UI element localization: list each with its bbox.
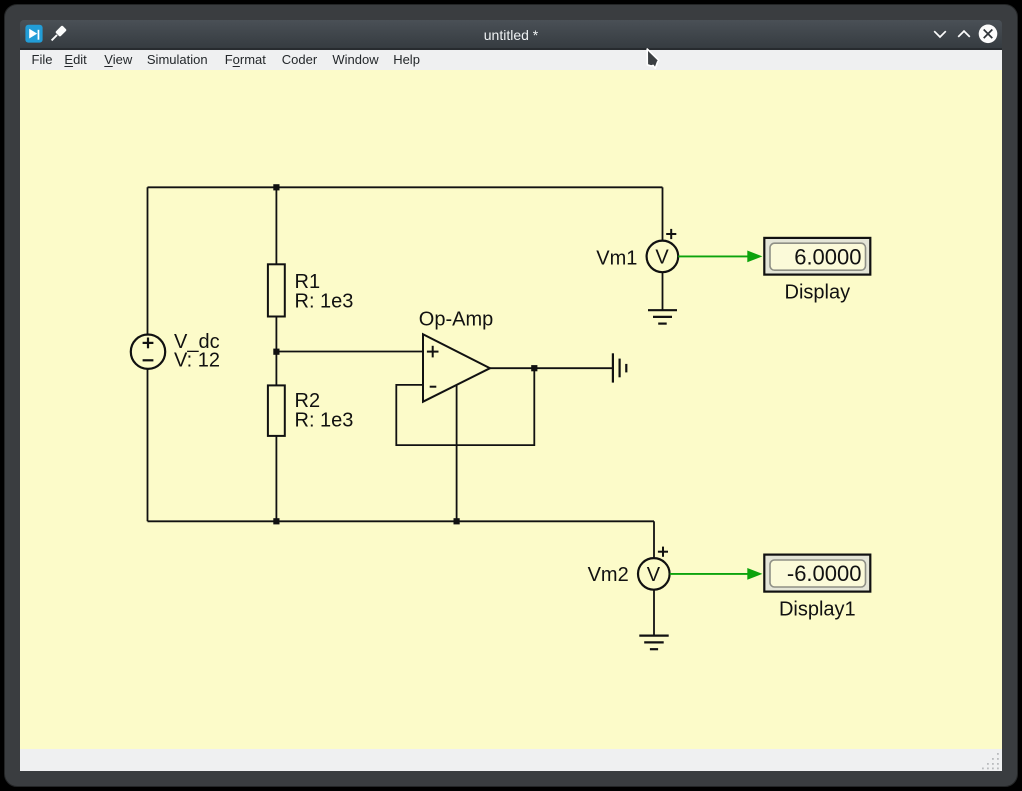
signal arrow Vm1 to Display [678, 251, 762, 263]
maximize chevron [955, 28, 973, 40]
resistor R2 [268, 386, 285, 437]
signal arrow Vm2 to Display1 [670, 568, 763, 580]
status strip [20, 749, 1002, 771]
ground below Vm1 [648, 310, 677, 323]
wire Vm2 to ground [653, 590, 655, 636]
op-amp U1 [423, 334, 490, 402]
title bar [20, 20, 1002, 48]
close button [978, 24, 998, 44]
wire R1 top [275, 188, 277, 265]
titlebar bottom dark line [20, 48, 1002, 50]
node B (R1-R2 tap) [273, 349, 279, 355]
wire op-amp output [490, 367, 613, 369]
svg-text:V: V [655, 247, 669, 269]
wire Vm1 drop [662, 188, 664, 242]
wire Vm2 drop [653, 522, 655, 559]
wire Vm1 to ground [662, 272, 664, 310]
voltage source V_dc [131, 335, 165, 369]
minimize chevron [931, 28, 949, 40]
wire left top [147, 188, 149, 335]
wire top horizontal [148, 187, 663, 189]
voltmeter Vm1 [647, 229, 679, 272]
wire op-amp feedback [396, 368, 534, 445]
wire left bottom [147, 369, 149, 521]
node C (R2 bottom) [273, 518, 279, 524]
svg-text:Vm2: Vm2 [588, 564, 629, 586]
display block Display1 [764, 555, 870, 592]
display block Display [764, 238, 870, 275]
node A (top R1) [273, 184, 279, 190]
wire op-amp plus input [276, 351, 423, 353]
svg-text:-6.0000: -6.0000 [787, 561, 862, 586]
window title [411, 27, 611, 43]
wire bottom horizontal [148, 521, 655, 523]
menu bar [20, 50, 1002, 71]
mouse cursor [642, 44, 666, 74]
resize grip [982, 752, 1004, 771]
svg-text:Op-Amp: Op-Amp [419, 309, 493, 331]
svg-text:V: V [647, 564, 661, 586]
pin icon [49, 25, 67, 43]
svg-text:6.0000: 6.0000 [794, 245, 861, 270]
node D (op-amp gnd on bottom rail) [454, 518, 460, 524]
svg-text:Display1: Display1 [779, 599, 856, 621]
wire op-amp ground pin [456, 385, 458, 521]
svg-text:V: 12: V: 12 [174, 350, 220, 372]
svg-text:R: 1e3: R: 1e3 [295, 410, 354, 432]
ground below Vm2 [639, 636, 668, 650]
svg-text:Vm1: Vm1 [596, 248, 637, 270]
node E (output-feedback) [531, 365, 537, 371]
wire R2 bottom [275, 436, 277, 521]
resistor R1 [268, 265, 285, 317]
app icon [25, 24, 43, 43]
svg-text:Display: Display [785, 282, 851, 304]
voltmeter Vm2 [638, 547, 670, 590]
wire R1-R2 middle [275, 317, 277, 386]
ground at op-amp output (rotated) [613, 354, 626, 383]
svg-text:R: 1e3: R: 1e3 [295, 291, 354, 313]
